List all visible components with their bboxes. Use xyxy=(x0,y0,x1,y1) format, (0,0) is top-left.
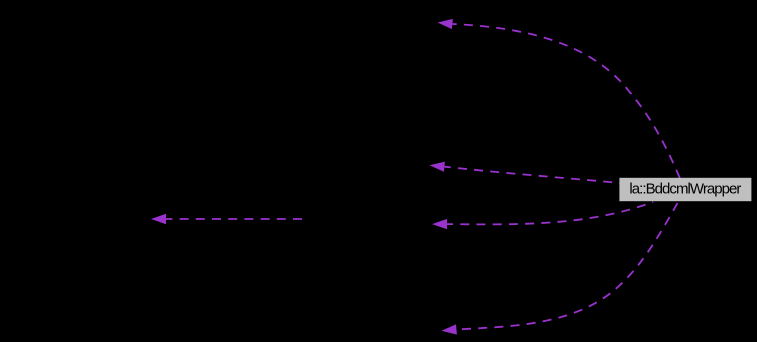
svg-text:la::BddcmlWrapper: la::BddcmlWrapper xyxy=(629,181,741,198)
